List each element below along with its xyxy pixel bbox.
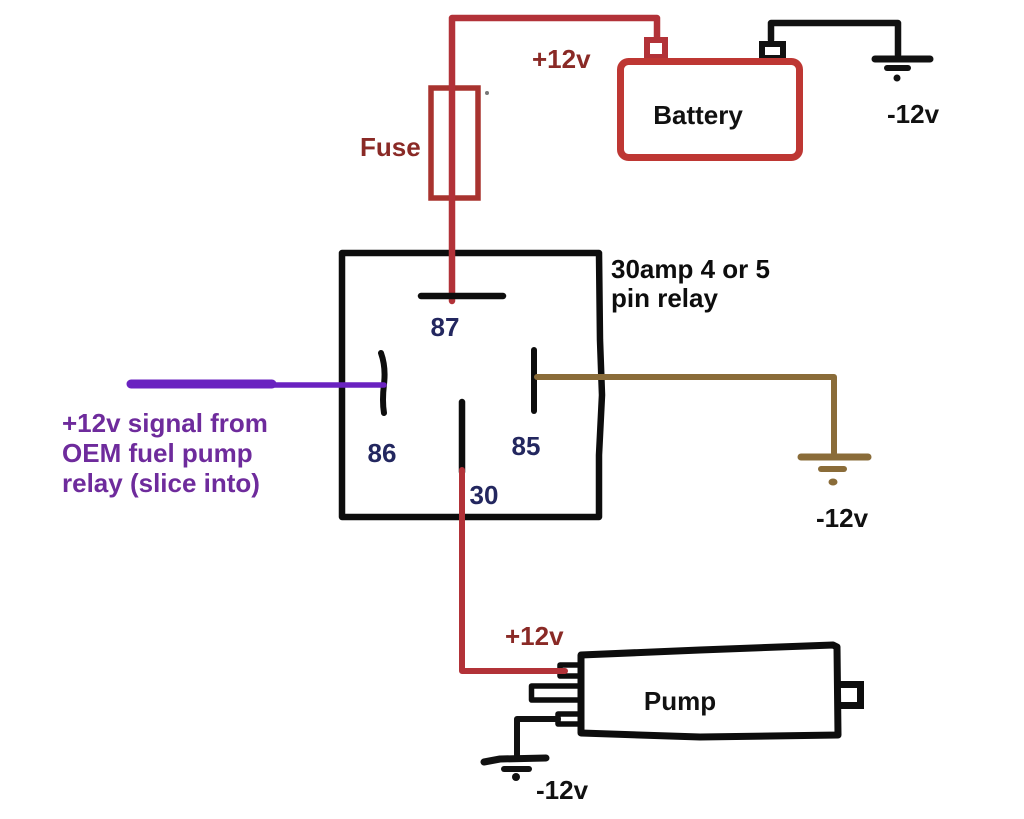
wire black: - terminal to ground (771, 23, 898, 55)
pin 85 terminal bar (531, 350, 537, 411)
stray dot (485, 91, 489, 95)
svg-text:relay (slice into): relay (slice into) (62, 468, 260, 498)
battery - terminal (762, 44, 783, 58)
ground (pump) (484, 758, 546, 769)
pump M1 body (581, 645, 838, 737)
svg-text:30amp 4 or 5: 30amp 4 or 5 (611, 254, 770, 284)
wire black: pump ground (517, 719, 558, 755)
svg-text:-12v: -12v (536, 775, 589, 805)
battery B1 body (621, 62, 800, 158)
battery + terminal (647, 40, 665, 57)
svg-text:86: 86 (368, 438, 397, 468)
pump connector pin 3 (bottom fork) (558, 714, 583, 724)
pump connector pin 2 (middle receptacle) (532, 686, 584, 700)
pin 87 terminal bar (421, 293, 503, 300)
pin 30 terminal bar (459, 402, 466, 472)
pump side connector (right) (837, 685, 861, 706)
wire olive: pin 85 to ground (537, 377, 834, 453)
svg-text:+12v signal from: +12v signal from (62, 408, 268, 438)
svg-text:OEM fuel pump: OEM fuel pump (62, 438, 253, 468)
svg-text:-12v: -12v (887, 99, 940, 129)
svg-text:+12v: +12v (532, 44, 591, 74)
red wire tip in fork (556, 668, 565, 674)
pin 86 terminal bar (381, 353, 385, 413)
svg-text:85: 85 (512, 431, 541, 461)
fuse F1 (431, 88, 478, 198)
wire red: fuse/relay 87 up to battery + terminal (452, 18, 657, 301)
svg-text:Pump: Pump (644, 686, 716, 716)
ground (relay 85) (801, 457, 868, 469)
svg-text:-12v: -12v (816, 503, 869, 533)
svg-text:87: 87 (431, 312, 460, 342)
svg-text:30: 30 (470, 480, 499, 510)
svg-text:pin relay: pin relay (611, 283, 718, 313)
ground (battery negative) (875, 59, 930, 68)
wire purple: +12v signal into pin 86 (130, 382, 384, 388)
svg-text:Battery: Battery (653, 100, 743, 130)
svg-text:+12v: +12v (505, 621, 564, 651)
pump connector pin 1 (top fork) (560, 665, 583, 676)
relay U1 box (342, 253, 602, 517)
svg-text:Fuse: Fuse (360, 132, 421, 162)
wire red: pin 30 down to pump (462, 470, 563, 671)
